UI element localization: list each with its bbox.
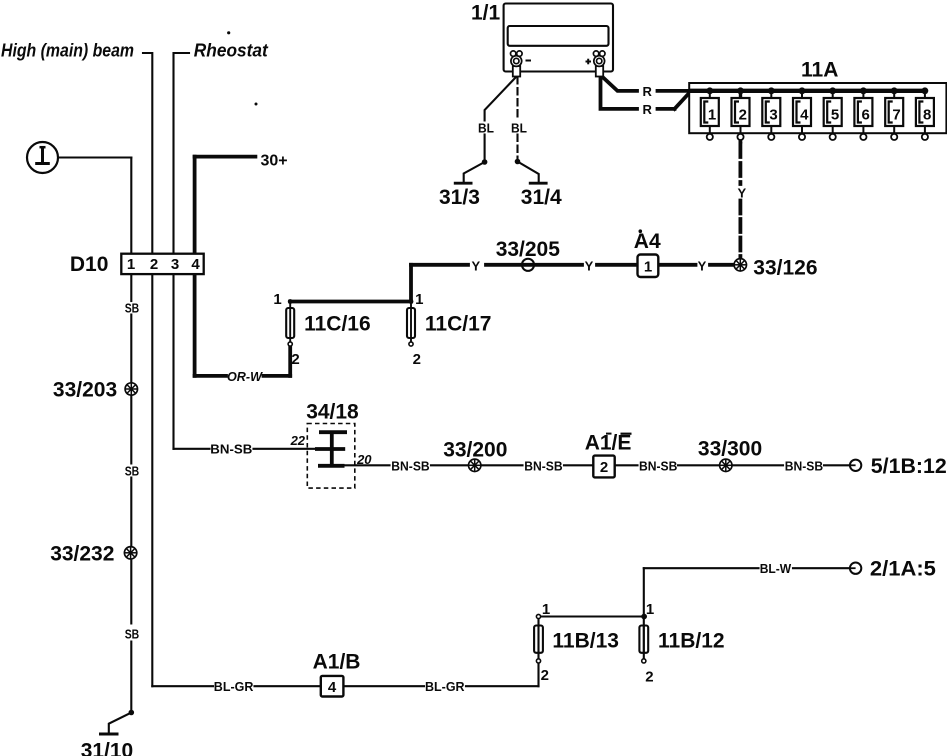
svg-text:33/205: 33/205: [496, 238, 561, 261]
svg-text:1: 1: [415, 291, 423, 308]
svg-text:BN-SB: BN-SB: [391, 458, 429, 473]
svg-text:33/203: 33/203: [53, 379, 117, 402]
svg-text:3: 3: [769, 106, 777, 123]
svg-text:2: 2: [600, 459, 608, 476]
svg-text:A1/E: A1/E: [585, 432, 632, 455]
svg-text:BL-GR: BL-GR: [214, 679, 254, 694]
svg-text:Y: Y: [585, 258, 594, 273]
svg-text:20: 20: [356, 452, 372, 467]
svg-text:30+: 30+: [261, 153, 288, 170]
svg-text:1: 1: [542, 601, 550, 618]
svg-text:33/232: 33/232: [50, 542, 114, 565]
svg-text:A1/B: A1/B: [313, 650, 361, 673]
svg-text:1: 1: [127, 256, 135, 273]
svg-text:22: 22: [290, 433, 306, 448]
svg-text:2: 2: [739, 106, 747, 123]
svg-text:1/1: 1/1: [471, 2, 501, 25]
svg-text:31/10: 31/10: [81, 740, 134, 756]
svg-text:2: 2: [291, 351, 299, 368]
svg-text:BL-W: BL-W: [760, 561, 792, 576]
svg-text:1: 1: [708, 106, 716, 123]
svg-text:11B/12: 11B/12: [658, 630, 725, 653]
svg-text:11B/13: 11B/13: [552, 630, 619, 653]
svg-text:34/18: 34/18: [306, 400, 359, 423]
svg-text:2: 2: [541, 667, 549, 684]
svg-text:33/200: 33/200: [443, 439, 507, 462]
svg-text:8: 8: [923, 106, 931, 123]
svg-text:D10: D10: [70, 253, 109, 276]
svg-text:4: 4: [191, 256, 200, 273]
svg-text:2/1A:5: 2/1A:5: [870, 557, 936, 580]
svg-text:OR-W: OR-W: [227, 369, 264, 384]
svg-text:5/1B:12: 5/1B:12: [871, 455, 947, 478]
svg-text:11C/16: 11C/16: [304, 313, 371, 336]
svg-text:High (main) beam: High (main) beam: [1, 40, 134, 60]
svg-text:6: 6: [862, 106, 870, 123]
svg-text:BL: BL: [478, 121, 494, 136]
svg-text:SB: SB: [125, 627, 140, 642]
svg-text:A4: A4: [634, 230, 661, 253]
svg-text:11C/17: 11C/17: [425, 313, 492, 336]
svg-text:3: 3: [171, 256, 179, 273]
svg-text:31/3: 31/3: [439, 186, 480, 209]
svg-text:Rheostat: Rheostat: [194, 40, 269, 60]
svg-text:R: R: [643, 84, 653, 99]
svg-text:1: 1: [646, 601, 654, 618]
svg-text:1: 1: [644, 258, 652, 275]
svg-text:7: 7: [892, 106, 900, 123]
svg-text:BL: BL: [511, 121, 527, 136]
svg-text:BL-GR: BL-GR: [425, 679, 465, 694]
svg-text:Y: Y: [738, 186, 747, 201]
svg-text:2: 2: [413, 351, 421, 368]
svg-text:SB: SB: [125, 300, 140, 315]
svg-text:31/4: 31/4: [521, 186, 562, 209]
svg-text:SB: SB: [125, 464, 140, 479]
svg-text:5: 5: [831, 106, 839, 123]
svg-text:33/300: 33/300: [698, 438, 762, 461]
svg-text:Y: Y: [472, 258, 481, 273]
svg-text:4: 4: [328, 679, 337, 696]
svg-text:BN-SB: BN-SB: [639, 458, 677, 473]
svg-text:BN-SB: BN-SB: [524, 458, 562, 473]
svg-text:1: 1: [273, 291, 281, 308]
svg-text:33/126: 33/126: [753, 256, 817, 279]
svg-text:11A: 11A: [801, 58, 838, 81]
svg-text:2: 2: [645, 669, 653, 686]
svg-text:Y: Y: [698, 258, 707, 273]
svg-text:2: 2: [150, 256, 158, 273]
svg-text:BN-SB: BN-SB: [210, 442, 252, 457]
svg-text:R: R: [643, 102, 653, 117]
svg-text:BN-SB: BN-SB: [785, 458, 823, 473]
svg-text:4: 4: [800, 106, 809, 123]
